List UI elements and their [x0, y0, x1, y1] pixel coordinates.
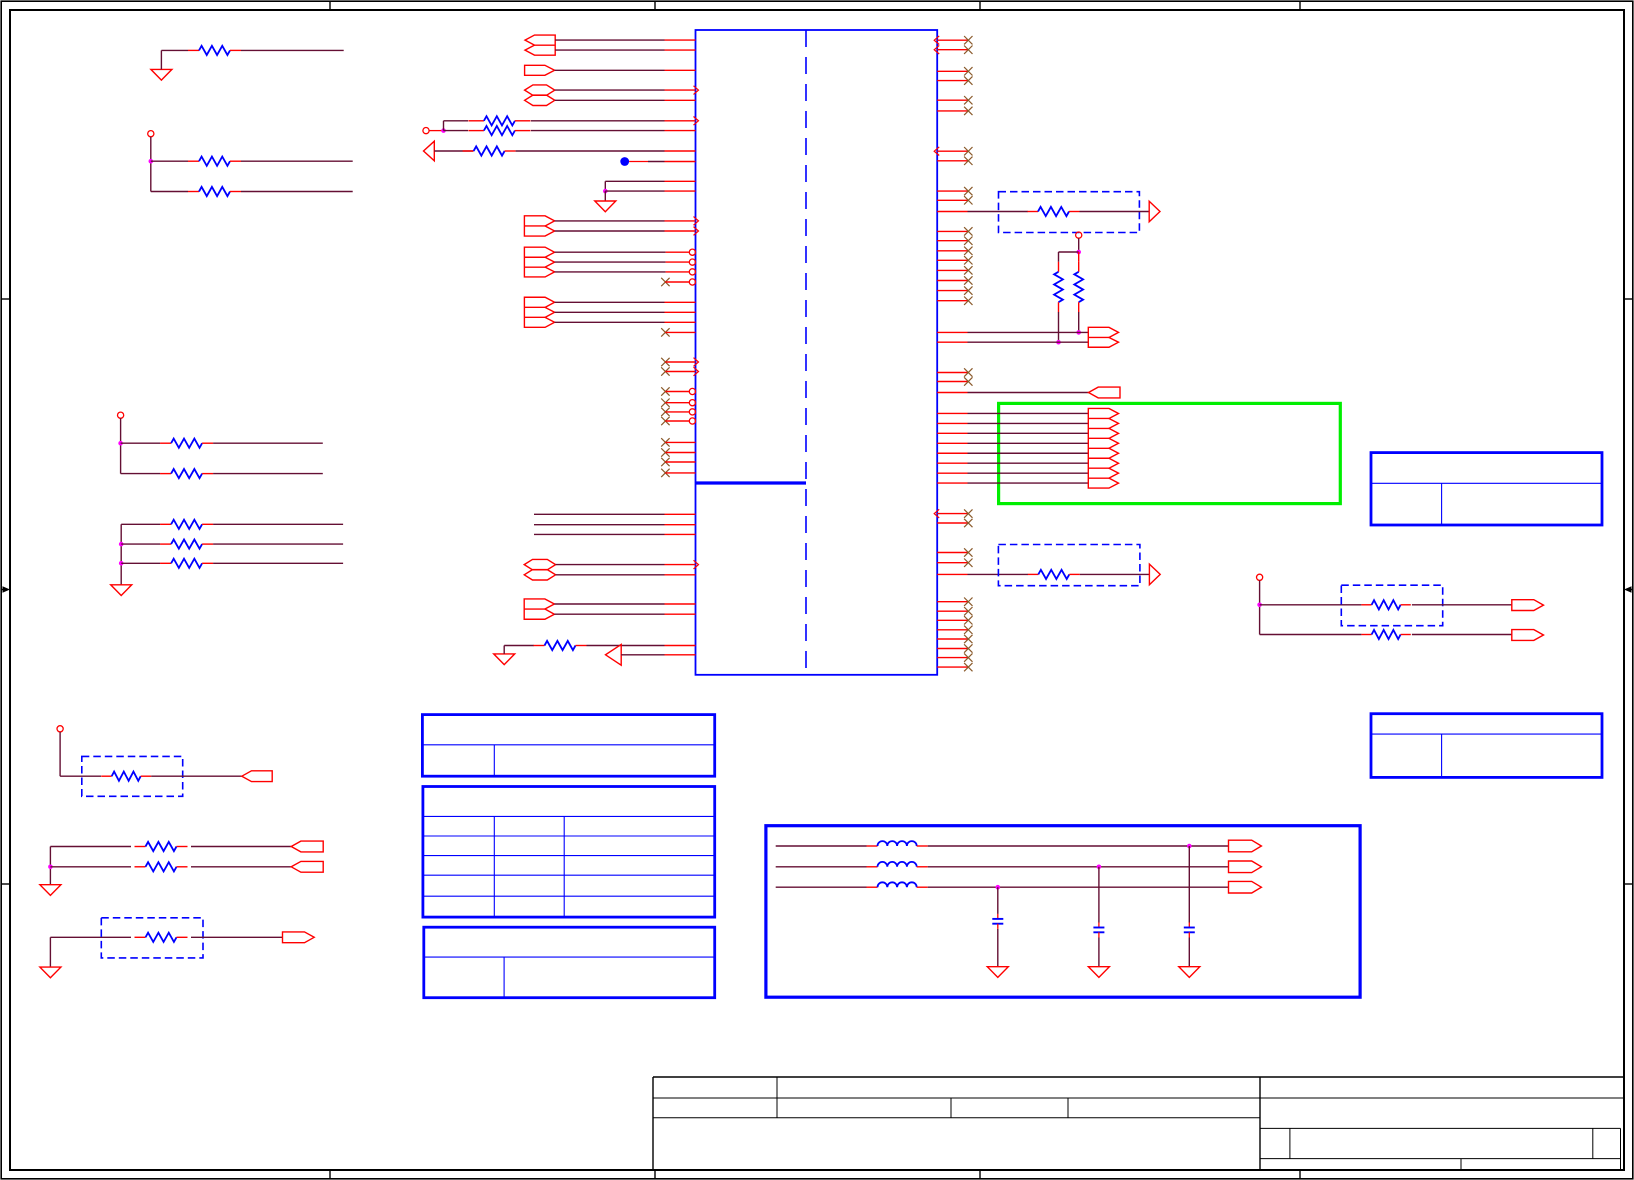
frame zone tick top x=1300	[1299, 1, 1301, 10]
pin stub right row 211	[937, 211, 967, 213]
wire row 846 out	[191, 846, 291, 848]
no-connect stub right row 552.5	[937, 552, 967, 554]
no-connect X right row 523	[964, 519, 972, 527]
wire row 463.2	[968, 462, 1089, 464]
no-connect X right row 160.8	[964, 157, 972, 165]
wire row 443.3	[968, 442, 1089, 444]
pin bubble row 282	[689, 279, 695, 285]
port right flag row 937	[283, 932, 315, 943]
inductor L3	[867, 886, 878, 888]
wire row 392	[968, 392, 1089, 394]
green highlight box	[999, 403, 1341, 503]
pin stub row 402.7	[665, 402, 689, 404]
junction dot row 563	[119, 561, 124, 566]
series damping box D1	[999, 192, 1140, 233]
wire row 271.9	[555, 271, 666, 273]
pin stub row 161	[665, 161, 696, 163]
wire to R row 846	[50, 846, 131, 848]
wire row 50	[555, 49, 664, 51]
frame zone tick left y=884	[1, 883, 10, 885]
wire corner 181-191	[604, 181, 606, 191]
pin bubble row 271.9	[689, 269, 695, 275]
pin stub row 231	[665, 230, 696, 232]
wire RV2 down	[1078, 312, 1080, 332]
port right flag row 634	[1512, 630, 1544, 641]
pin chevron right row 40.2	[934, 36, 939, 45]
no-connect stub right row 80.6	[937, 80, 967, 82]
pin stub row 100	[665, 99, 696, 101]
wire RV1 down	[1058, 312, 1060, 342]
no-connect X right row 372.5	[964, 368, 972, 376]
pin stub right row 443.3	[937, 442, 967, 444]
frame zone tick top x=980	[979, 1, 981, 10]
wire row 575	[556, 574, 665, 576]
wire to R row 130	[444, 130, 469, 132]
wire row 262.1	[555, 261, 666, 263]
wire to R row 524.3	[121, 523, 160, 525]
table C row line	[424, 956, 715, 958]
resistor R row 120	[468, 120, 484, 122]
pin stub right row 433.3	[937, 432, 967, 434]
frame zone tick top x=655	[654, 1, 656, 10]
pin stub row 90	[665, 89, 696, 91]
no-connect X row 421	[661, 417, 669, 425]
pin chevron right row 513.6	[934, 509, 939, 518]
resistor R row 846	[135, 846, 146, 848]
pin bubble row 411.9	[689, 409, 695, 415]
pin stub right row 483.1	[937, 482, 967, 484]
wire gnd riser row 645	[503, 646, 505, 654]
port double right flag rows 604/614	[524, 599, 554, 619]
wire J1 to junction	[429, 130, 443, 132]
wire from blue dot	[629, 161, 648, 163]
wire J4 right	[60, 775, 101, 777]
wire row 645	[587, 645, 665, 647]
junction dot J3	[118, 441, 123, 446]
pin stub row 50	[665, 49, 696, 51]
wire row 867 out	[191, 866, 291, 868]
resistor R row 867	[135, 866, 146, 868]
pin stub row 452.5	[665, 452, 695, 454]
frame zone tick bottom x=330	[329, 1170, 331, 1179]
node J3 open circle	[118, 412, 124, 418]
no-connect X right row 151.2	[964, 147, 972, 155]
no-connect X right row 562.7	[964, 559, 972, 567]
ground GND4	[111, 585, 132, 596]
wire to R row 645	[504, 645, 534, 647]
wire to ground row 191	[604, 191, 606, 201]
junction dot J5	[1257, 603, 1262, 608]
wire gnd riser topleft	[160, 50, 162, 69]
junction dot J2	[149, 159, 154, 164]
pin bubble row 262.1	[689, 259, 695, 265]
node circle below D1	[1076, 232, 1082, 238]
wire row 534.4	[534, 533, 665, 535]
pin chevron row 221	[694, 217, 699, 226]
wire row 443 out	[213, 442, 323, 444]
wire bus vertical x50b	[49, 937, 51, 967]
no-connect X row 391.5	[661, 387, 669, 395]
junction dot RV2	[1076, 330, 1081, 335]
no-connect X right row 270.4	[964, 266, 972, 274]
wire to R row 161	[151, 160, 188, 162]
frame zone tick right y=884	[1624, 883, 1633, 885]
resistor R row 191b	[188, 191, 199, 193]
wire row 181	[605, 180, 664, 182]
bidir port hexagon row 565	[524, 559, 555, 569]
wire row 211	[968, 211, 1028, 213]
no-connect stub right row 151.2	[937, 150, 967, 152]
resistor RV1 vertical	[1058, 262, 1060, 272]
port triple right flag rows 252-272	[524, 247, 554, 277]
wire RV2 top red	[1078, 252, 1080, 262]
op IC U1 body outline	[696, 30, 938, 675]
pin stub right row 332	[937, 331, 967, 333]
pin stub row 362	[665, 361, 695, 363]
wire row 252.2	[555, 251, 666, 253]
wire bus vertical x50	[49, 847, 51, 885]
wire row 483.1	[968, 482, 1089, 484]
capacitor C1	[1184, 927, 1195, 929]
no-connect X right row 260.3	[964, 256, 972, 264]
no-connect X right row 191.1	[964, 187, 972, 195]
no-connect stub right row 639	[937, 638, 967, 640]
power filter outline box	[766, 826, 1360, 998]
wire J5 down	[1259, 580, 1261, 634]
no-connect X right row 231.4	[964, 227, 972, 235]
wire cap C3 lower	[997, 924, 999, 929]
resistor R row 563.3	[160, 562, 171, 564]
table R2 col line	[1441, 734, 1443, 777]
port 8-stack right flags	[1088, 408, 1118, 488]
no-connect stub right row 648.5	[937, 648, 967, 650]
IC U1 center dashed divider	[805, 30, 807, 675]
wire junction vertical	[443, 121, 445, 131]
frame zone tick top x=330	[329, 1, 331, 10]
pin stub row 565	[665, 564, 696, 566]
wire row 413.4	[968, 412, 1089, 414]
pin stub row 462	[665, 461, 695, 463]
pin stub row 472.9	[665, 472, 695, 474]
no-connect X right row 552.5	[964, 548, 972, 556]
junction dot 252	[1076, 250, 1081, 255]
resistor R row 130	[468, 130, 484, 132]
no-connect stub right row 667.1	[937, 666, 967, 668]
wire to R row 191b	[151, 191, 188, 193]
wire row 231	[555, 230, 665, 232]
no-connect stub right row 100.2	[937, 99, 967, 101]
pin stub row 534.4	[665, 533, 696, 535]
resistor R row 645	[534, 645, 545, 647]
wire row 423.4	[968, 422, 1089, 424]
no-connect X right row 381.5	[964, 377, 972, 385]
output triangle D1	[1149, 201, 1160, 222]
no-connect X right row 620.3	[964, 616, 972, 624]
inductor L1	[867, 845, 878, 847]
port double right flag rows 332/342	[1088, 327, 1118, 347]
inductor L2	[867, 866, 878, 868]
wire row 211 out	[1080, 211, 1150, 213]
wire row 473 out	[213, 473, 323, 475]
port right flag row 605	[1512, 600, 1544, 611]
pin stub row 604	[665, 603, 696, 605]
wire cap C2 lower	[1098, 932, 1100, 937]
resistor R row 151	[463, 150, 474, 152]
resistor R D4	[101, 775, 112, 777]
no-connect X right row 40.2	[964, 36, 972, 44]
pin bubble row 402.7	[689, 400, 695, 406]
no-connect stub right row 372.5	[937, 372, 967, 374]
bidir port hexagon row 575	[524, 570, 555, 580]
pin stub row 151	[665, 150, 696, 152]
output triangle D2	[1149, 564, 1160, 585]
title block right cells	[1260, 1127, 1621, 1129]
frame zone tick bottom x=655	[654, 1170, 656, 1179]
frame mid-right arrow marker	[1626, 589, 1633, 591]
no-connect stub right row 300.7	[937, 300, 967, 302]
junction dot row 130	[441, 128, 446, 133]
no-connect X right row 100.2	[964, 96, 972, 104]
bidir port hexagon row 90	[525, 85, 555, 95]
wire power row 846 out	[928, 845, 1229, 847]
pin stub row 332	[665, 331, 695, 333]
wire cap C3 upper	[997, 887, 999, 914]
no-connect X right row 110.9	[964, 107, 972, 115]
frame zone tick bottom x=1300	[1299, 1170, 1301, 1179]
no-connect X row 282	[661, 278, 669, 286]
no-connect stub right row 40.2	[937, 39, 967, 41]
ground GND1	[595, 201, 616, 212]
pin stub row 614	[665, 613, 696, 615]
wire to R row 544.1	[121, 543, 160, 545]
no-connect X right row 639	[964, 635, 972, 643]
wire power row 887.2 out	[928, 886, 1229, 888]
resistor R row 473	[160, 473, 171, 475]
net stub blue dot	[620, 157, 629, 166]
ground GND3	[151, 69, 172, 80]
table A row line	[422, 744, 714, 746]
wire row 524.3 out	[213, 523, 343, 525]
no-connect stub right row 250.8	[937, 250, 967, 252]
wire to R row 867	[50, 866, 131, 868]
node J2 open circle	[148, 131, 154, 137]
no-connect stub right row 513.6	[937, 513, 967, 515]
resistor R D1	[1028, 211, 1039, 213]
wire row 161 out	[241, 160, 353, 162]
pin stub row 514.3	[665, 513, 696, 515]
pin stub row 221	[665, 220, 696, 222]
node J5 open circle	[1257, 574, 1263, 580]
pin stub row 411.9	[665, 411, 689, 413]
wire row 40	[555, 39, 664, 41]
no-connect stub right row 49.7	[937, 49, 967, 51]
pin stub row 442.4	[665, 441, 695, 443]
pin stub row 655	[665, 654, 696, 656]
wire row 433.3	[968, 432, 1089, 434]
pin stub row 282	[665, 281, 689, 283]
resistor R D3a	[1361, 604, 1371, 606]
series box D5	[101, 918, 203, 958]
pin bubble row 252.2	[689, 249, 695, 255]
ground GND C2	[1088, 967, 1109, 978]
connector CN left double flag rows 40/50	[525, 35, 555, 55]
no-connect stub right row 657.6	[937, 657, 967, 659]
no-connect X row 472.9	[661, 469, 669, 477]
wire row 605	[1260, 604, 1362, 606]
frame zone tick bottom x=980	[979, 1170, 981, 1179]
pin chevron row 565	[694, 560, 699, 569]
wire row 514.3	[534, 513, 665, 515]
wire power row 887.2 in	[776, 886, 867, 888]
pin chevron row 231	[694, 227, 699, 236]
wire power row 866.8 out	[928, 866, 1229, 868]
wire row 120	[531, 120, 665, 122]
pin chevron row 362	[694, 358, 699, 367]
no-connect X right row 513.6	[964, 509, 972, 517]
port tag right row 70	[525, 65, 555, 75]
no-connect X row 362	[661, 358, 669, 366]
table B outline	[423, 787, 715, 918]
no-connect X right row 657.6	[964, 653, 972, 661]
no-connect X row 332	[661, 328, 669, 336]
pin chevron row 90	[694, 86, 699, 95]
wire row 100	[555, 99, 665, 101]
pin stub row 252.2	[666, 251, 690, 253]
wire J4 down	[59, 732, 61, 776]
wire cap C2 upper	[1098, 867, 1100, 923]
pin stub row 191	[665, 190, 696, 192]
wire to R row 120	[444, 120, 469, 122]
no-connect X right row 80.6	[964, 76, 972, 84]
wire row 70	[555, 69, 665, 71]
pin stub row 271.9	[666, 271, 690, 273]
wire row 604	[554, 603, 664, 605]
table B grid lines	[423, 815, 715, 817]
pin chevron row 371.5	[694, 367, 699, 376]
pin stub right row 574	[937, 573, 967, 575]
no-connect stub right row 620.3	[937, 619, 967, 621]
wire row 605 out	[1412, 604, 1512, 606]
input triangle row 151	[424, 141, 435, 161]
ground GND C1	[1179, 967, 1200, 978]
no-connect X right row 49.7	[964, 46, 972, 54]
no-connect stub right row 71.3	[937, 70, 967, 72]
series damping box D2	[998, 545, 1140, 586]
no-connect stub right row 191.1	[937, 190, 967, 192]
wire row 191b out	[241, 191, 353, 193]
pin stub row 70	[665, 69, 696, 71]
ground GND C3	[987, 967, 1008, 978]
pin stub right row 473.1	[937, 472, 967, 474]
port triple right flag rows 302-322	[524, 297, 554, 327]
wire row 563.3 out	[213, 562, 343, 564]
wire row 191	[605, 190, 664, 192]
wire row 565	[556, 564, 665, 566]
wire cap C1 lower	[1188, 932, 1190, 937]
no-connect X right row 240.7	[964, 237, 972, 245]
series box D4	[82, 756, 183, 796]
pin stub row 120	[665, 120, 696, 122]
wire row 90	[555, 89, 665, 91]
wire row 574	[968, 573, 1029, 575]
table R2 outline	[1371, 714, 1602, 778]
node J4 open circle	[57, 726, 63, 732]
no-connect stub right row 270.4	[937, 269, 967, 271]
wire topleft out	[241, 49, 344, 51]
junction dot power row 846	[1187, 844, 1192, 849]
resistor R topleft	[188, 49, 199, 51]
wire row 614	[554, 613, 664, 615]
wire J3 down	[120, 418, 122, 473]
wire to R row 563.3	[121, 562, 160, 564]
wire row 151	[516, 150, 665, 152]
wire power row 866.8 in	[776, 866, 867, 868]
no-connect stub right row 280.5	[937, 280, 967, 282]
wire row 130	[531, 130, 665, 132]
no-connect X right row 280.5	[964, 276, 972, 284]
wire row 302.3	[555, 301, 665, 303]
resistor R D5	[135, 936, 146, 938]
ground GND2	[494, 654, 515, 665]
no-connect X row 371.5	[661, 367, 669, 375]
wire J2 down	[150, 137, 152, 192]
table C col line	[503, 957, 505, 998]
wire row 544.1 out	[213, 543, 343, 545]
wire row 634 out	[1412, 634, 1512, 636]
table R1 row line	[1371, 482, 1602, 484]
pin stub row 322.3	[665, 321, 696, 323]
port left flag row 392	[1089, 387, 1121, 398]
no-connect X right row 601.7	[964, 598, 972, 606]
pin stub row 40	[665, 39, 696, 41]
pin chevron right row 49.7	[934, 45, 939, 54]
no-connect stub right row 381.5	[937, 381, 967, 383]
junction dot power row 866.8	[1097, 865, 1102, 870]
no-connect X right row 71.3	[964, 67, 972, 75]
table C outline	[424, 927, 715, 998]
pin stub row 645	[665, 645, 696, 647]
no-connect stub right row 562.7	[937, 562, 967, 564]
table R2 row line	[1371, 733, 1602, 735]
capacitor C3	[992, 918, 1003, 920]
wire row 574 out	[1080, 573, 1150, 575]
frame zone tick right y=299	[1624, 298, 1633, 300]
no-connect X right row 648.5	[964, 644, 972, 652]
pin chevron right row 151.2	[934, 147, 939, 156]
pin stub row 391.5	[665, 391, 689, 393]
wire row 655	[621, 654, 664, 656]
frame mid-left arrow marker	[1, 589, 8, 591]
wire row 312.3	[555, 311, 665, 313]
frame zone tick left y=299	[1, 298, 10, 300]
pin stub right row 453.2	[937, 452, 967, 454]
wire row 221	[555, 220, 665, 222]
no-connect stub right row 611.2	[937, 610, 967, 612]
resistor R D3b	[1361, 634, 1371, 636]
pin stub row 262.1	[666, 261, 690, 263]
pin stub right row 392	[937, 392, 967, 394]
table A outline	[422, 715, 714, 777]
table A col line	[493, 745, 495, 776]
port left flag row 867	[291, 861, 323, 872]
no-connect stub right row 601.7	[937, 601, 967, 603]
bidir port hexagon row 100	[525, 95, 555, 105]
no-connect X right row 667.1	[964, 663, 972, 671]
wire D4 out	[151, 775, 242, 777]
IC U1 thick section bar	[696, 481, 807, 484]
no-connect X row 462	[661, 458, 669, 466]
wire row 342	[968, 341, 1089, 343]
